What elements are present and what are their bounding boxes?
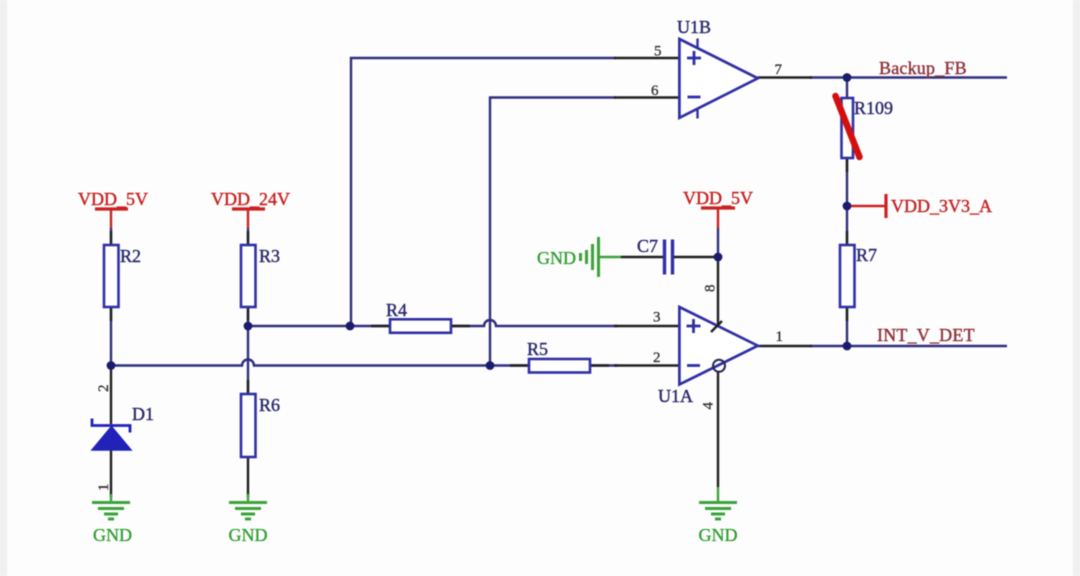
pin U1A-1 stub <box>758 345 812 347</box>
resistor R109 (not fitted) <box>836 96 894 158</box>
junction node pin7/Backup_FB <box>843 73 852 82</box>
pin D1-2 stub <box>110 366 112 425</box>
svg-text:5: 5 <box>654 44 662 60</box>
junction node pin5 wire on y=326 <box>346 322 355 331</box>
resistor R6 <box>241 394 280 457</box>
svg-text:R2: R2 <box>120 246 141 266</box>
pin U1B-7 stub <box>758 76 812 78</box>
svg-text:R4: R4 <box>386 300 407 320</box>
wire pin6 net: U1B pin6 to node at (490,365.5) <box>490 98 616 366</box>
resistor R3 <box>241 245 280 307</box>
svg-text:7: 7 <box>775 62 783 78</box>
zener diode D1 <box>92 404 154 450</box>
junction node C7/VDD5V/pin8 <box>714 253 723 262</box>
resistor R7 <box>840 245 877 307</box>
svg-text:1: 1 <box>776 329 784 345</box>
resistor R5 <box>527 339 590 373</box>
svg-text:R7: R7 <box>856 245 877 265</box>
wire VDD_5V to C7 node <box>717 228 719 257</box>
ground GND under D1 <box>92 494 132 545</box>
svg-text:3: 3 <box>653 310 661 326</box>
svg-text:1: 1 <box>96 484 112 492</box>
junction node VDD_3V3_A tap <box>843 202 852 211</box>
pin R2 bottom stub <box>110 306 112 321</box>
pin R2 top stub <box>110 231 112 246</box>
pin U1B-6 stub <box>614 96 679 98</box>
wire right column through R109 and R7 <box>846 78 848 347</box>
svg-text:GND: GND <box>229 525 268 545</box>
pin U1A-4 stub <box>717 372 719 487</box>
power port VDD_5V (middle) <box>683 188 753 228</box>
wire INT_V_DET horizontal <box>810 345 1007 347</box>
power port VDD_5V (left) <box>78 189 148 228</box>
svg-text:INT_V_DET: INT_V_DET <box>877 325 975 345</box>
svg-text:R6: R6 <box>259 395 280 415</box>
pin U1A-8 stub <box>717 257 719 326</box>
wire R3-R6 column vertical <box>247 228 249 394</box>
wire row y=326 with hop over x=490 <box>248 320 618 326</box>
pin U1A-3 stub <box>614 325 679 327</box>
pin R4 left stub <box>371 325 391 327</box>
junction node pin6 wire on y=365.5 <box>486 361 495 370</box>
ground GND sideways at C7 <box>537 237 621 277</box>
svg-text:U1A: U1A <box>658 386 693 406</box>
wire pin5 net: U1B pin5 to node at (351,326) <box>351 58 616 326</box>
wire Backup_FB horizontal <box>810 76 1007 78</box>
svg-text:2: 2 <box>653 350 661 366</box>
pin R6 bottom stub <box>247 457 249 497</box>
svg-text:VDD_5V: VDD_5V <box>78 189 148 209</box>
svg-text:VDD_24V: VDD_24V <box>211 189 290 209</box>
ground GND under U1A pin4 <box>699 487 738 545</box>
resistor R2 <box>104 245 141 307</box>
pin R3 bottom stub <box>247 306 249 321</box>
svg-text:C7: C7 <box>637 236 658 256</box>
svg-text:4: 4 <box>701 402 717 410</box>
pin R4 right stub <box>450 325 470 327</box>
svg-text:VDD_3V3_A: VDD_3V3_A <box>891 196 992 216</box>
pin R7 top stub <box>846 231 848 246</box>
power port VDD_3V3_A <box>851 194 992 218</box>
op-amp U1B <box>677 17 758 119</box>
pin R3 top stub <box>247 231 249 246</box>
junction node R3 bottom <box>244 322 253 331</box>
pin C7 right stub <box>674 256 718 258</box>
svg-text:Backup_FB: Backup_FB <box>879 58 967 78</box>
wire R2 column vertical <box>110 228 112 366</box>
svg-text:R109: R109 <box>854 98 893 118</box>
svg-text:R3: R3 <box>259 246 280 266</box>
svg-text:U1B: U1B <box>677 17 711 37</box>
svg-text:GND: GND <box>93 525 132 545</box>
svg-text:2: 2 <box>96 385 112 393</box>
svg-text:D1: D1 <box>132 404 154 424</box>
pin R6 top stub <box>247 380 249 395</box>
wire row y=365.5 with hop over x=248 <box>111 360 618 366</box>
svg-text:8: 8 <box>703 285 719 293</box>
power port VDD_24V <box>211 189 290 228</box>
junction node R2/D1 <box>107 361 116 370</box>
pin D1-1 stub <box>110 450 112 497</box>
pin R5 left stub <box>510 364 530 366</box>
pin R5 right stub <box>589 364 609 366</box>
pin U1A-2 stub <box>614 364 679 366</box>
svg-text:VDD_5V: VDD_5V <box>683 188 753 208</box>
svg-text:R5: R5 <box>527 339 548 359</box>
pin R109 bottom stub <box>846 157 848 172</box>
pin R7 bottom stub <box>846 306 848 321</box>
svg-text:GND: GND <box>537 248 576 268</box>
svg-text:6: 6 <box>651 83 659 99</box>
op-amp U1A <box>658 307 758 406</box>
pin U1B-5 stub <box>614 57 679 59</box>
ground GND under R6 <box>229 494 268 545</box>
capacitor C7 <box>637 236 673 275</box>
junction node INT_V_DET <box>843 342 852 351</box>
svg-text:GND: GND <box>699 525 738 545</box>
resistor R4 <box>386 300 451 333</box>
pin C7 left stub <box>620 256 663 258</box>
